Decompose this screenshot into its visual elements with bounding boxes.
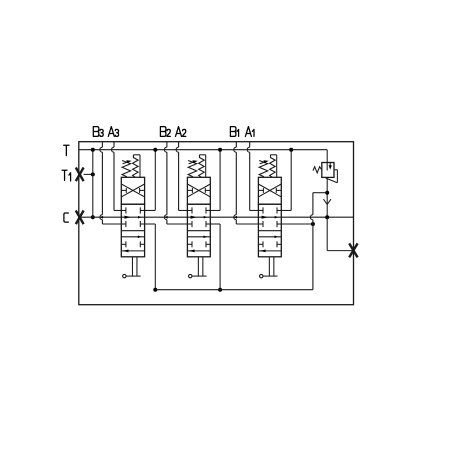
spring relief valve (313, 167, 322, 173)
wire T rail (79, 150, 327, 163)
wire section 2 tank bridge (210, 148, 222, 211)
wire C open-center rail (79, 216, 354, 218)
label port B3 (93, 127, 103, 137)
wire port B3 line (100, 142, 121, 224)
wire port A2 line (176, 142, 187, 211)
relief module section 2 (box with X) (187, 177, 210, 204)
wire section 3 tank bridge (281, 148, 293, 211)
wire relief to C rail (325, 177, 329, 219)
shutoff plug X right (349, 243, 357, 257)
wire port A3 line (112, 142, 122, 211)
spring (return meander) section 3 (270, 155, 277, 178)
wire port B2 line (164, 142, 187, 224)
label port B1 (230, 127, 238, 137)
wire port B1 line (234, 142, 259, 224)
wire bottom return rail (155, 289, 313, 291)
flow arrows section 3 (234, 216, 278, 253)
label port B2 (160, 127, 170, 137)
wire to shutoff (327, 217, 353, 250)
enclosure frame (valve block outline) (79, 142, 354, 305)
manual lever actuator section 3 (260, 257, 278, 278)
spring (adjustable) section 3 (259, 160, 269, 177)
relief module section 1 (box with X) (121, 177, 144, 204)
wire port A1 line (247, 142, 258, 211)
wire section 1 bottom link (145, 224, 158, 292)
label port A1 (245, 127, 254, 137)
wire section 3 bottom link (281, 222, 315, 226)
spring (adjustable) section 1 (122, 160, 132, 177)
directional spool valve section 1 (121, 204, 144, 257)
manual lever actuator section 1 (123, 257, 141, 278)
label port A2 (176, 127, 186, 137)
flow arrows section 1 (100, 216, 141, 253)
wire section 2 bottom link (210, 224, 222, 292)
spring (return meander) section 1 (133, 155, 140, 178)
port T label (64, 145, 69, 155)
port C label (64, 213, 69, 222)
port T1 plug X (76, 168, 84, 182)
manual lever actuator section 2 (189, 257, 207, 278)
label port A3 (108, 127, 118, 137)
port T1 label (62, 170, 71, 181)
directional spool valve section 2 (187, 204, 210, 257)
directional spool valve section 3 (258, 204, 281, 257)
wire section 1 tank bridge (145, 148, 158, 211)
spring (return meander) section 2 (199, 155, 206, 178)
port C plug X (76, 211, 84, 225)
relief module section 3 (box with X) (258, 177, 281, 204)
wire T1 to tank link (84, 148, 95, 220)
spring (adjustable) section 2 (188, 160, 198, 177)
pilot flag relief valve (326, 170, 338, 183)
wire relief drain (310, 193, 327, 290)
flow arrows section 2 (165, 216, 208, 253)
check valve arrow (324, 199, 331, 204)
relief valve (main, spring-loaded) (322, 163, 334, 178)
